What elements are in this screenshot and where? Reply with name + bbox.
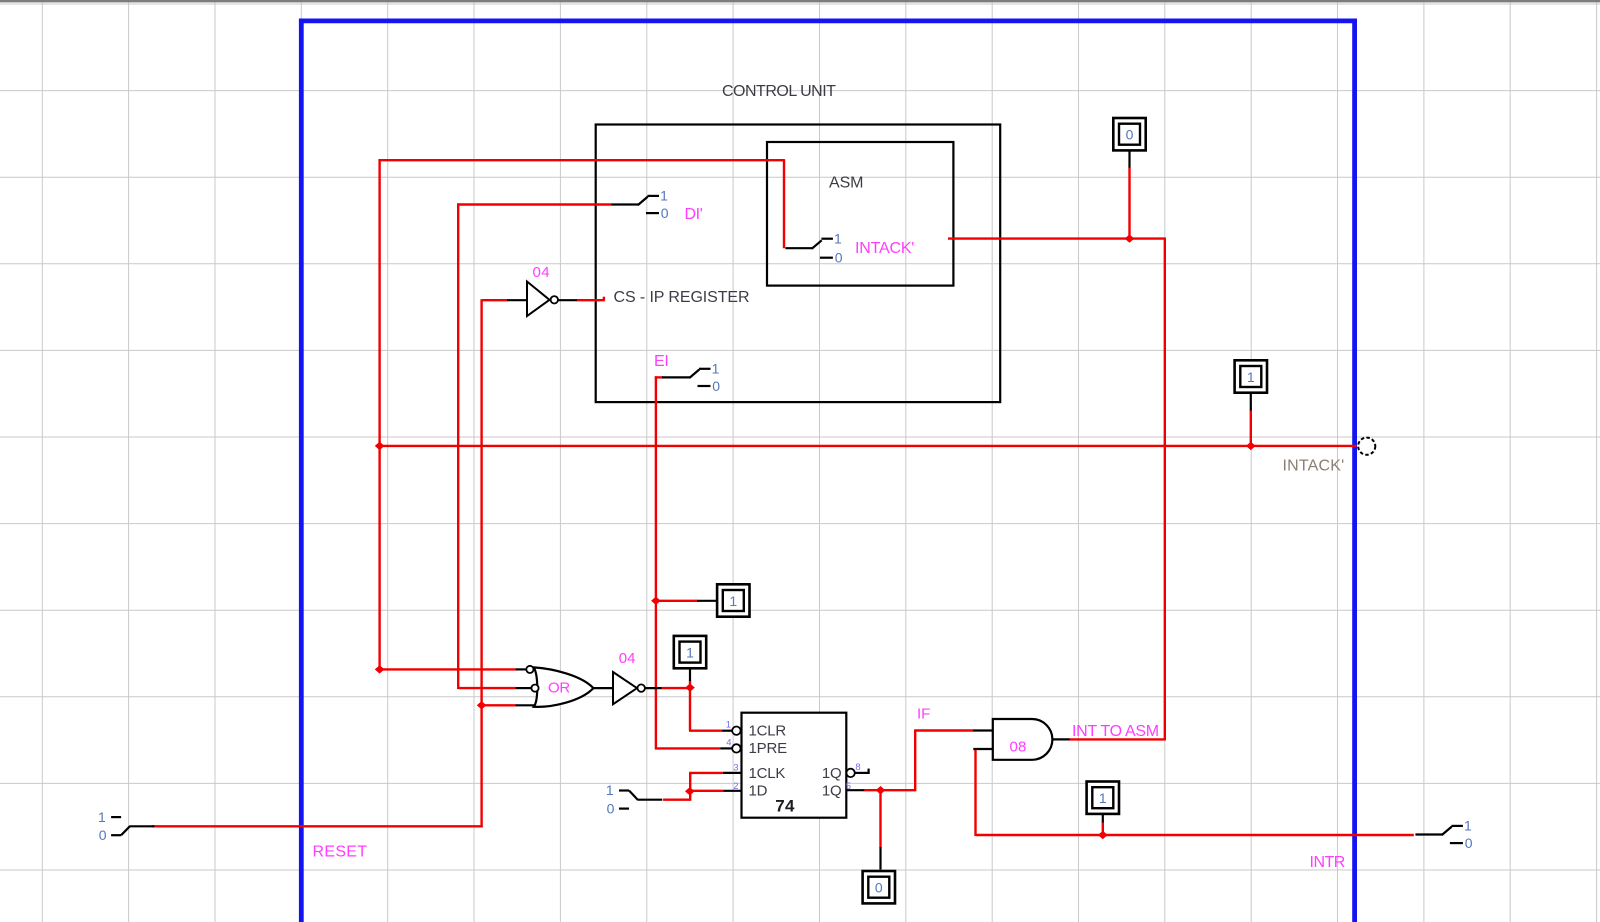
junction node INTACK split <box>375 442 385 450</box>
svg-text:1Q: 1Q <box>822 765 842 782</box>
svg-text:04: 04 <box>533 264 551 281</box>
wire DI to OR input2 <box>458 687 516 689</box>
lead AND output stub <box>1053 738 1070 740</box>
ASM box U-ASM <box>767 142 953 286</box>
lead OR input1 stub <box>516 668 527 670</box>
svg-text:0: 0 <box>712 378 720 394</box>
svg-text:DI': DI' <box>685 206 703 223</box>
pin number 3 <box>733 762 738 773</box>
wire INTACK2 from ASM box <box>948 237 1166 239</box>
lead AND input2 stub <box>973 748 993 750</box>
LED L2 value 1 <box>1235 360 1267 392</box>
chip value 74 <box>775 796 795 815</box>
label RESET <box>313 843 368 860</box>
svg-text:3: 3 <box>733 762 738 773</box>
flip-flop U74 body <box>742 713 847 818</box>
wire 1Q to IF corner <box>864 789 916 791</box>
junction node EI-LED <box>651 597 661 605</box>
lead 1PRE stub <box>720 747 732 749</box>
pin label 1Qbar <box>822 765 842 782</box>
LED L4 value 1 <box>674 636 706 668</box>
pin bubble 1CLR <box>732 727 740 735</box>
svg-text:OR: OR <box>548 680 570 697</box>
svg-text:2: 2 <box>733 781 738 792</box>
svg-text:1CLK: 1CLK <box>749 765 786 782</box>
wire IF vertical <box>914 729 916 791</box>
svg-text:0: 0 <box>607 800 615 816</box>
wire INTR horizontal <box>976 834 1414 836</box>
wire node B to 1CLR <box>689 730 722 732</box>
lead LED L5 stub <box>1102 814 1104 823</box>
junction node INTR-LED <box>1098 831 1108 839</box>
lead LED L4 stub <box>689 668 691 681</box>
pin number 2 <box>733 781 738 792</box>
svg-text:1: 1 <box>1247 369 1255 385</box>
svg-text:1: 1 <box>686 644 694 660</box>
pin number 8 <box>855 762 860 773</box>
svg-text:1: 1 <box>712 361 720 377</box>
switch INTR <box>1415 818 1472 851</box>
blue boundary box <box>301 21 1354 922</box>
label 04 a <box>533 264 551 281</box>
and-gate U08 <box>993 719 1053 760</box>
lead U04a output stub <box>558 299 577 301</box>
label INTR <box>1310 854 1345 871</box>
junction node B U04b output <box>685 683 695 691</box>
junction node INTACK corner <box>375 665 385 673</box>
wire INTACK long horizontal <box>379 445 1357 447</box>
inverter U04a <box>527 282 558 317</box>
svg-text:4: 4 <box>726 738 731 749</box>
pin bubble 1PRE <box>732 744 740 752</box>
svg-text:1: 1 <box>834 230 842 246</box>
top window edge <box>0 0 1600 2</box>
lead LED L1 stub <box>1128 152 1130 168</box>
svg-text:5: 5 <box>846 781 851 792</box>
label INT TO ASM <box>1072 723 1159 740</box>
wire to 1CLK <box>689 772 723 774</box>
pin number 5 <box>846 781 851 792</box>
pin bubble 1Qbar <box>846 769 854 777</box>
switch EI <box>662 361 720 394</box>
pin label 1PRE <box>749 740 788 757</box>
svg-text:INTR: INTR <box>1310 854 1345 871</box>
svg-text:08: 08 <box>1010 739 1027 756</box>
pin number 4 <box>726 738 731 749</box>
wire DI switch horizontal <box>457 203 611 205</box>
lead AND input1 stub <box>973 729 993 731</box>
label 04 b <box>619 650 636 667</box>
junction node INTACK2-LED <box>1125 234 1135 242</box>
lead 1CLR stub <box>722 730 732 732</box>
svg-text:ASM: ASM <box>829 175 863 192</box>
lead LED L3 stub <box>697 600 717 602</box>
svg-text:CS - IP REGISTER: CS - IP REGISTER <box>614 289 750 306</box>
svg-text:1: 1 <box>606 782 614 798</box>
svg-text:1: 1 <box>729 593 737 609</box>
wire U04b output <box>661 687 690 689</box>
svg-text:1Q: 1Q <box>822 782 842 799</box>
wire INTR up to AND input2 <box>974 749 976 836</box>
svg-text:INTACK': INTACK' <box>1283 457 1345 474</box>
lead 1Q stub <box>846 789 864 791</box>
wire EI branch to LED L3 <box>656 600 698 602</box>
svg-text:0: 0 <box>99 827 107 843</box>
lead OR output to U04b <box>593 687 613 689</box>
lead U04b output stub <box>645 687 662 689</box>
svg-text:0: 0 <box>661 205 669 221</box>
svg-text:1: 1 <box>726 720 731 731</box>
lead 1D stub <box>723 790 741 792</box>
switch DI' <box>612 188 669 221</box>
wire node B stub up to LED L4 <box>689 681 691 689</box>
wire LED L2 stub red <box>1250 410 1252 446</box>
wire RESET vertical <box>480 299 482 827</box>
svg-text:1: 1 <box>98 809 106 825</box>
pin label 1D <box>749 782 768 799</box>
svg-text:1D: 1D <box>749 782 768 799</box>
switch INTACK' (ASM) <box>785 230 842 265</box>
wire U04a output to register box <box>576 299 604 301</box>
wire node B down <box>689 687 691 731</box>
pin label 1Q <box>822 782 842 799</box>
wire U04a output end tick <box>603 297 605 301</box>
junction node 1Q split <box>876 786 886 794</box>
svg-text:1PRE: 1PRE <box>749 740 788 757</box>
wire EI vertical <box>655 376 657 748</box>
lead 1CLK stub <box>723 772 742 774</box>
control unit box <box>596 125 1001 403</box>
svg-text:0: 0 <box>875 880 883 896</box>
wire RESET to inverter U04a input <box>482 299 508 301</box>
junction node 1D-1CLK <box>685 787 695 795</box>
pin number 1 <box>726 720 731 731</box>
svg-text:74: 74 <box>775 796 795 815</box>
label INTACK' magenta <box>855 240 914 257</box>
LED L1 value 0 <box>1113 118 1145 150</box>
label CS - IP REGISTER <box>614 289 750 306</box>
svg-text:0: 0 <box>1126 127 1134 143</box>
label 08 <box>1010 739 1027 756</box>
wire INTACK top horizontal <box>379 159 785 161</box>
svg-text:CONTROL UNIT: CONTROL UNIT <box>722 83 836 100</box>
lead LED L2 stub <box>1250 394 1252 411</box>
svg-text:IF: IF <box>917 706 930 723</box>
svg-text:1: 1 <box>660 188 668 204</box>
lead 1Qbar stub hook <box>867 769 869 773</box>
svg-text:8: 8 <box>855 762 860 773</box>
lead LED L6 stub <box>879 847 881 870</box>
pin label 1CLK <box>749 765 786 782</box>
wire EI lead link <box>655 376 663 378</box>
label DI' <box>685 206 703 223</box>
wire 1D jog vertical <box>689 773 691 801</box>
wire RESET to OR input3 <box>482 704 517 706</box>
lead OR input3 stub <box>516 704 538 706</box>
label EI <box>654 353 669 370</box>
wire INTACK left vertical <box>378 159 380 670</box>
svg-text:1: 1 <box>1099 790 1107 806</box>
wire INT TO ASM vertical <box>1164 238 1166 741</box>
wire DI vertical <box>457 203 459 689</box>
svg-text:04: 04 <box>619 650 636 667</box>
wire 1Q down to LED L6 <box>879 790 881 847</box>
wire INTACK drop to ASM switch <box>783 159 785 248</box>
pin label 1CLR <box>749 723 787 740</box>
wire INT TO ASM horizontal <box>1069 738 1165 740</box>
svg-text:INTACK': INTACK' <box>855 240 914 257</box>
junction node INTACK-LED2 <box>1246 442 1256 450</box>
wire INTACK to OR input1 <box>379 668 517 670</box>
svg-text:1: 1 <box>1464 818 1472 834</box>
LED L6 value 0 <box>863 871 895 903</box>
lead OR input2 stub <box>516 687 532 689</box>
wire EI to 1PRE <box>655 747 720 749</box>
label CONTROL UNIT <box>722 83 836 100</box>
wire LED L5 stub red <box>1102 822 1104 835</box>
terminal INTACK' output <box>1358 438 1375 455</box>
wire IF to AND input1 <box>915 729 974 731</box>
svg-text:0: 0 <box>1465 835 1473 851</box>
or-gate OR1 <box>526 666 593 707</box>
label ASM <box>829 175 863 192</box>
wire 1D switch horizontal <box>663 799 690 801</box>
inverter U04b <box>613 672 645 704</box>
wire LED L1 stub red <box>1128 167 1130 239</box>
label INTACK' terminal <box>1283 457 1345 474</box>
LED L5 value 1 <box>1087 782 1119 814</box>
label IF <box>917 706 930 723</box>
switch D input <box>606 782 662 816</box>
lead U04a input stub <box>507 299 526 301</box>
switch RESET <box>98 809 154 843</box>
label OR <box>548 680 570 697</box>
wire RESET horizontal <box>152 825 483 827</box>
svg-text:0: 0 <box>835 250 843 266</box>
svg-text:1CLR: 1CLR <box>749 723 787 740</box>
junction node RESET-OR <box>477 701 487 709</box>
svg-text:EI: EI <box>654 353 669 370</box>
lead 1Qbar stub <box>855 772 870 774</box>
LED L3 value 1 <box>717 584 749 616</box>
svg-text:RESET: RESET <box>313 843 368 860</box>
svg-text:INT TO ASM: INT TO ASM <box>1072 723 1159 740</box>
wire to 1D pin <box>689 790 723 792</box>
